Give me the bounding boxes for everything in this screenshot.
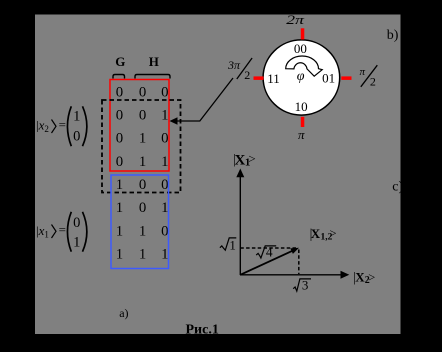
svg-text:=: = [59, 222, 66, 237]
rotation arrow [286, 56, 323, 76]
svg-text:H: H [149, 54, 159, 69]
svg-text:1: 1 [116, 223, 123, 239]
ket x1 left paren [67, 212, 71, 252]
red tick bottom [301, 117, 305, 127]
svg-text:0: 0 [139, 84, 146, 100]
svg-text:2: 2 [370, 75, 376, 89]
svg-text:0: 0 [139, 200, 146, 216]
ket x2 right paren [83, 106, 87, 146]
label sqrt1 [220, 237, 236, 252]
red tick right [341, 76, 351, 80]
svg-text:>: > [368, 270, 375, 284]
svg-text:G: G [115, 54, 125, 69]
arrow from circle region to table row 001 [170, 78, 234, 125]
label ket X1 [233, 151, 255, 169]
svg-text:>: > [330, 227, 337, 241]
svg-text:0: 0 [161, 223, 168, 239]
svg-text:01: 01 [322, 70, 335, 85]
svg-text:0: 0 [161, 131, 168, 147]
svg-text:0: 0 [73, 215, 80, 231]
svg-text:0: 0 [116, 154, 123, 170]
svg-text:2: 2 [244, 68, 250, 82]
svg-text:3: 3 [302, 278, 309, 293]
svg-text:1: 1 [161, 108, 168, 124]
bracket under H [135, 75, 170, 79]
svg-text:1: 1 [139, 131, 146, 147]
svg-text:11: 11 [267, 71, 280, 86]
label pi/2 right [360, 65, 378, 89]
svg-text:1: 1 [161, 200, 168, 216]
svg-text:π: π [360, 66, 366, 78]
svg-text:3π: 3π [227, 58, 241, 72]
svg-text:0: 0 [73, 129, 80, 145]
svg-text:1: 1 [116, 177, 123, 193]
svg-text:0: 0 [161, 84, 168, 100]
svg-text:1: 1 [116, 200, 123, 216]
svg-text:b): b) [387, 28, 399, 43]
svg-text:10: 10 [295, 99, 308, 114]
svg-text:π: π [298, 127, 305, 142]
bracket under G [113, 75, 125, 79]
label sqrt3 [293, 278, 311, 293]
label ket X12 [310, 226, 337, 242]
circle b) [263, 40, 340, 115]
red rectangle around rows 1-4 [110, 80, 169, 172]
ket x1 right paren [83, 212, 87, 252]
svg-text:0: 0 [161, 177, 168, 193]
svg-text:1: 1 [139, 247, 146, 263]
dashed projection vertical [298, 250, 300, 275]
gray panel [35, 15, 401, 335]
ket x1 angle bracket [52, 225, 57, 239]
vector X12 [240, 248, 299, 275]
svg-text:2π: 2π [286, 13, 305, 27]
ket x2 left paren [67, 106, 71, 146]
ket x2 angle bracket [52, 120, 57, 134]
svg-text:0: 0 [116, 108, 123, 124]
svg-text:>: > [248, 151, 255, 166]
svg-text:0: 0 [139, 108, 146, 124]
dashed projection horizontal [240, 247, 297, 249]
svg-text:а): а) [119, 306, 128, 320]
x axis [240, 271, 349, 279]
svg-text:1: 1 [161, 154, 168, 170]
red tick top [301, 28, 305, 39]
svg-text:4: 4 [266, 245, 273, 260]
svg-text:X: X [235, 153, 246, 169]
svg-text:Рис.1: Рис.1 [186, 323, 219, 338]
svg-text:1: 1 [116, 247, 123, 263]
red tick left [254, 76, 264, 80]
label 3pi/2 left [227, 58, 252, 82]
svg-text:0: 0 [116, 84, 123, 100]
svg-text:1: 1 [229, 237, 236, 252]
label ket X2 [353, 270, 375, 286]
svg-text:1: 1 [73, 108, 80, 124]
svg-text:X: X [355, 270, 365, 285]
label sqrt4 [256, 245, 276, 260]
svg-text:X: X [311, 226, 321, 241]
svg-text:0: 0 [116, 131, 123, 147]
dashed rectangle around rows 2-5 [102, 100, 181, 193]
svg-text:=: = [59, 117, 66, 132]
blue rectangle around rows 5-8 [111, 175, 169, 269]
truth table digits [116, 84, 169, 262]
svg-text:φ: φ [297, 69, 305, 84]
svg-text:1: 1 [161, 247, 168, 263]
y axis [236, 169, 244, 276]
svg-text:1: 1 [73, 234, 80, 250]
svg-text:1: 1 [139, 223, 146, 239]
svg-text:1: 1 [139, 154, 146, 170]
svg-text:00: 00 [294, 41, 307, 56]
svg-text:c): c) [392, 180, 403, 195]
svg-text:0: 0 [139, 177, 146, 193]
